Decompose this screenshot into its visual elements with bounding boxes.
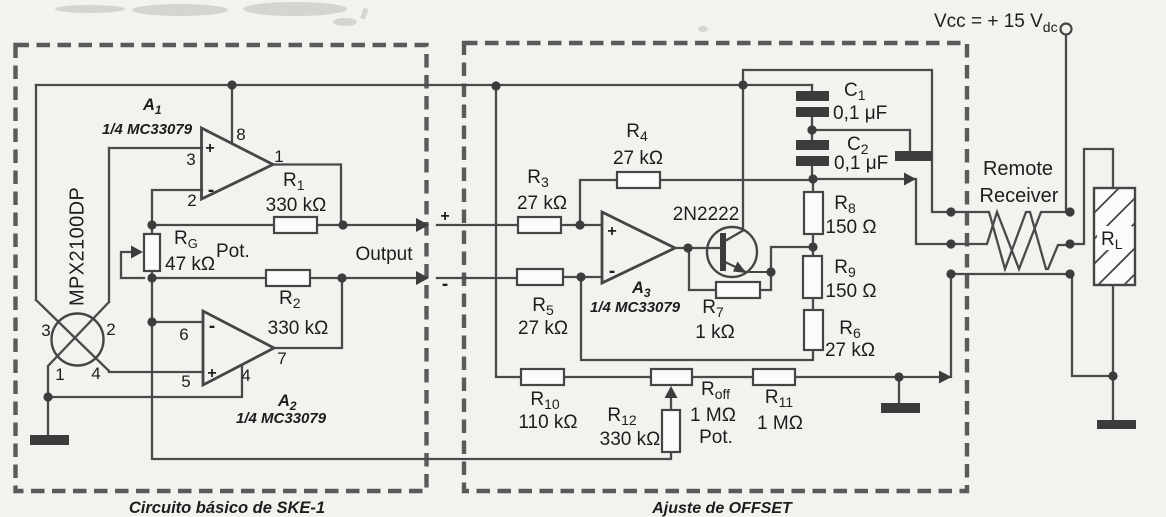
node: R5/feedback bbox=[576, 272, 585, 281]
wire: R4 right to C2 node bbox=[660, 179, 951, 244]
svg-text:330 kΩ: 330 kΩ bbox=[266, 195, 327, 216]
node: bus / pin8 bbox=[227, 80, 236, 89]
wire: RL bottom / ground bbox=[1072, 274, 1113, 420]
svg-text:+: + bbox=[207, 365, 216, 382]
capacitor C2 bbox=[796, 140, 829, 166]
svg-text:2: 2 bbox=[106, 320, 115, 339]
wire: C1 top stub bbox=[811, 85, 813, 91]
svg-text:330 kΩ: 330 kΩ bbox=[268, 318, 329, 339]
node: receiver left mid bbox=[946, 239, 955, 248]
node: ground line offset bbox=[894, 372, 903, 381]
svg-text:7: 7 bbox=[277, 349, 286, 368]
svg-text:Pot.: Pot. bbox=[699, 427, 733, 448]
potentiometer Roff bbox=[651, 369, 692, 385]
wire: sensor diagonal pin2 to pin1 bbox=[48, 302, 109, 397]
op-amp A2 bbox=[203, 311, 274, 385]
svg-text:4: 4 bbox=[241, 366, 250, 385]
arrow: ground line to receiver bbox=[939, 371, 952, 384]
resistor R11 bbox=[753, 369, 795, 385]
svg-text:Receiver: Receiver bbox=[980, 185, 1059, 207]
svg-text:0,1 μF: 0,1 μF bbox=[834, 153, 888, 174]
wire: bus hop over C1 to receiver top bbox=[743, 70, 951, 212]
resistor R9 bbox=[803, 256, 822, 298]
wire: Vcc drop to receiver bbox=[1066, 34, 1070, 212]
op-amp A3 bbox=[602, 212, 675, 283]
terminal bar node bbox=[895, 151, 932, 161]
wire: A2 - input riser bbox=[152, 278, 203, 322]
node: receiver right mid bbox=[1065, 239, 1074, 248]
svg-text:27 kΩ: 27 kΩ bbox=[517, 193, 567, 214]
ground (offset box) bbox=[881, 403, 920, 413]
node: emitter bbox=[766, 267, 775, 276]
svg-text:27 kΩ: 27 kΩ bbox=[518, 318, 568, 339]
transistor Q1 2N2222 bbox=[707, 227, 771, 277]
wire: R7 right riser to emitter bbox=[760, 272, 771, 290]
ground (load) bbox=[1097, 420, 1136, 429]
svg-text:47 kΩ: 47 kΩ bbox=[165, 254, 215, 275]
node: C1/C2 bbox=[807, 125, 816, 134]
wire: R7 left riser bbox=[689, 248, 716, 290]
dashed box: Ajuste de OFFSET bbox=[464, 43, 967, 491]
svg-text:1/4 MC33079: 1/4 MC33079 bbox=[590, 299, 681, 316]
wire: R8 to R9 bbox=[812, 234, 814, 256]
svg-text:Remote: Remote bbox=[983, 158, 1053, 180]
svg-text:4: 4 bbox=[91, 364, 100, 383]
node: A1 minus / RG top bbox=[147, 220, 156, 229]
node: + output bbox=[338, 220, 347, 229]
node: RG bottom bbox=[147, 273, 156, 282]
wire: RG top stub bbox=[151, 225, 153, 234]
node: R8/R9 bbox=[808, 242, 817, 251]
wire: R5 right to A3 - bbox=[563, 276, 602, 278]
wire: bus left drop to sensor pin 3 bbox=[35, 85, 37, 300]
node: receiver right top bbox=[1065, 207, 1074, 216]
svg-text:Output: Output bbox=[355, 244, 413, 265]
potentiometer RG bbox=[144, 234, 160, 271]
wire: A3 output to base bbox=[675, 247, 722, 249]
arrow: + output bbox=[416, 218, 429, 232]
node: A2 minus bbox=[147, 317, 156, 326]
wire: R1 left bbox=[152, 224, 274, 226]
wire: R3 right to A3 + bbox=[561, 224, 602, 226]
svg-text:330 kΩ: 330 kΩ bbox=[600, 429, 661, 450]
wire: emitter to R8/R9 node bbox=[771, 247, 813, 272]
svg-text:+: + bbox=[440, 208, 449, 225]
wire: offset injection line to R12 bbox=[152, 322, 671, 459]
twisted pair conductor A bbox=[951, 212, 1070, 269]
svg-text:-: - bbox=[209, 316, 215, 337]
svg-text:8: 8 bbox=[236, 125, 245, 144]
svg-text:-: - bbox=[442, 274, 448, 295]
svg-text:Pot.: Pot. bbox=[216, 241, 250, 262]
wire: ground stem offset box bbox=[898, 377, 900, 402]
svg-text:1/4 MC33079: 1/4 MC33079 bbox=[102, 121, 193, 138]
resistor R7 bbox=[716, 282, 760, 298]
wire: A1 - input bbox=[152, 190, 202, 225]
wire: C1 bottom to C2 top bbox=[811, 117, 813, 140]
ground (MPX) bbox=[30, 435, 69, 445]
svg-text:2N2222: 2N2222 bbox=[673, 204, 740, 225]
svg-text:110 kΩ: 110 kΩ bbox=[518, 412, 577, 433]
svg-text:3: 3 bbox=[186, 150, 195, 169]
node: receiver left top bbox=[946, 207, 955, 216]
wire: R2 left bbox=[152, 277, 266, 279]
wire: + output line to R3 bbox=[343, 224, 518, 226]
wire: A2 output pin7 up to node bbox=[274, 278, 342, 348]
node: C2/R8 bbox=[808, 174, 817, 183]
resistor R4 bbox=[617, 172, 660, 188]
node: RL ground bbox=[1108, 371, 1117, 380]
wire: R1 right to output node bbox=[317, 224, 343, 226]
svg-text:+: + bbox=[205, 140, 214, 157]
svg-text:27 kΩ: 27 kΩ bbox=[825, 340, 875, 361]
arrow: Roff wiper bbox=[665, 386, 678, 398]
wire: RG wiper link bbox=[121, 252, 144, 278]
wire: R4 riser bbox=[580, 180, 617, 225]
wire: - output line to R5 bbox=[342, 277, 517, 279]
svg-text:150 Ω: 150 Ω bbox=[825, 217, 876, 238]
node: - output bbox=[337, 273, 346, 282]
wire: collector riser to bus bbox=[742, 85, 744, 229]
svg-text:MPX2100DP: MPX2100DP bbox=[67, 187, 89, 306]
resistor R12 bbox=[662, 410, 680, 452]
wire: R8 top stub bbox=[812, 179, 814, 192]
svg-text:1: 1 bbox=[274, 147, 283, 166]
Vcc terminal bbox=[1061, 24, 1072, 35]
svg-text:Circuito básico de SKE-1: Circuito básico de SKE-1 bbox=[129, 499, 325, 517]
svg-text:1 kΩ: 1 kΩ bbox=[695, 322, 735, 343]
load resistor RL hatched bbox=[1094, 188, 1135, 285]
wire: ground stem MPX bbox=[47, 397, 49, 436]
wire: Roff to R11 bbox=[692, 376, 753, 378]
wire: R2 right to node bbox=[310, 277, 342, 279]
svg-text:1/4 MC33079: 1/4 MC33079 bbox=[236, 410, 327, 427]
resistor R8 bbox=[804, 192, 823, 234]
capacitor C1 bbox=[796, 91, 829, 117]
dashed box: Circuito basico de SKE-1 bbox=[16, 45, 427, 491]
wire: C2 bottom stub bbox=[811, 166, 813, 179]
sensor MPX2100DP bbox=[52, 314, 104, 366]
wire: R9 to R6 bbox=[812, 298, 814, 310]
wire: A1 + input bbox=[109, 147, 202, 149]
node: bus / R10 riser bbox=[491, 81, 500, 90]
svg-text:1: 1 bbox=[55, 365, 64, 384]
arrow: signal to receiver bbox=[904, 173, 916, 186]
svg-text:150 Ω: 150 Ω bbox=[825, 281, 876, 302]
wire: A3 feedback loop to R6 bbox=[581, 277, 813, 360]
wire: A1 output pin1 down to node bbox=[273, 165, 341, 226]
svg-text:5: 5 bbox=[181, 372, 190, 391]
op-amp A1 bbox=[202, 128, 274, 199]
node: bus / collector bbox=[738, 80, 747, 89]
arrow: RG wiper bbox=[131, 246, 143, 259]
svg-text:-: - bbox=[609, 261, 615, 282]
wire: A1 pin 8 to bus bbox=[231, 85, 233, 143]
scan smudges top bbox=[55, 2, 708, 32]
svg-text:1 MΩ: 1 MΩ bbox=[757, 413, 803, 434]
wire: A1 + input riser from sensor pin 2 bbox=[108, 148, 110, 302]
wire: R10 to Roff bbox=[564, 376, 651, 378]
arrow: - output bbox=[416, 271, 429, 285]
node: R3/R4 bbox=[575, 220, 584, 229]
svg-text:6: 6 bbox=[179, 325, 188, 344]
twisted pair conductor B bbox=[951, 212, 1070, 269]
svg-text:1 MΩ: 1 MΩ bbox=[690, 405, 736, 426]
wire: +V top bus bbox=[36, 84, 812, 86]
wire: Roff wiper stem bbox=[670, 396, 672, 410]
svg-text:3: 3 bbox=[41, 321, 50, 340]
svg-text:27 kΩ: 27 kΩ bbox=[613, 148, 663, 169]
node: receiver left bottom bbox=[946, 269, 955, 278]
wire: sensor diagonal pin3 to pin4 bbox=[36, 300, 203, 372]
svg-text:0,1 μF: 0,1 μF bbox=[833, 103, 887, 124]
resistor R6 bbox=[804, 310, 823, 350]
resistor R2 bbox=[266, 270, 310, 286]
svg-text:Vcc = + 15 Vdc: Vcc = + 15 Vdc bbox=[934, 11, 1058, 35]
wire: RG bottom stub bbox=[151, 271, 153, 278]
svg-text:Ajuste de OFFSET: Ajuste de OFFSET bbox=[651, 500, 793, 517]
wire: receiver bottom rail bbox=[951, 273, 1070, 275]
wire: RL top hookup bbox=[1070, 149, 1113, 244]
wire: bus riser to R10 bbox=[496, 86, 521, 377]
node: receiver right bottom bbox=[1065, 269, 1074, 278]
wire: stub to terminal bar bbox=[812, 130, 910, 151]
resistor R1 bbox=[274, 217, 317, 233]
node: A3 output bbox=[683, 243, 692, 252]
wire: ground line to A2 pin 4 bbox=[48, 366, 242, 397]
resistor R5 bbox=[517, 269, 563, 285]
svg-text:+: + bbox=[607, 223, 616, 240]
node: MPX ground bbox=[43, 392, 52, 401]
svg-text:-: - bbox=[208, 180, 214, 201]
svg-text:2: 2 bbox=[187, 191, 196, 210]
wire: R11 to receiver bottom rail bbox=[795, 274, 951, 377]
resistor R3 bbox=[518, 217, 561, 233]
resistor R10 bbox=[521, 369, 564, 385]
